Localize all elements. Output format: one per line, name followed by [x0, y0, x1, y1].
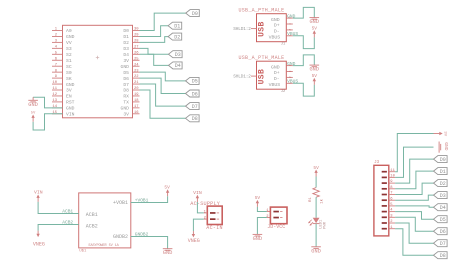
svg-text:A0: A0: [66, 28, 72, 34]
svg-text:VV: VV: [66, 40, 72, 46]
ground symbol (JD-VCC): [253, 234, 263, 242]
U1 right pin 18 (TX): [123, 99, 139, 106]
svg-text:USB: USB: [257, 21, 266, 37]
svg-text:USB: USB: [257, 69, 266, 85]
svg-text:6: 6: [55, 57, 58, 61]
svg-text:3V: 3V: [123, 112, 129, 118]
net flag D4 (left group): [169, 62, 183, 69]
svg-text:3: 3: [288, 23, 291, 25]
net flag D3 (right column): [434, 192, 448, 199]
svg-text:D-: D-: [274, 76, 280, 82]
U1 left pin 11 (3V): [52, 87, 72, 94]
svg-text:D6: D6: [123, 76, 129, 82]
J1 pin stub 1: [286, 17, 293, 19]
svg-text:ACB2: ACB2: [62, 219, 73, 225]
svg-text:ACB1: ACB1: [86, 212, 98, 218]
U1 left pin 2 (GND): [52, 34, 75, 41]
svg-text:SK: SK: [66, 76, 72, 82]
net flag D1 (right column): [434, 168, 448, 175]
svg-text:8: 8: [390, 186, 393, 190]
svg-text:3: 3: [55, 40, 58, 44]
svg-text:D2: D2: [440, 181, 446, 187]
svg-text:GND: GND: [271, 64, 280, 70]
svg-text:D7: D7: [192, 104, 198, 110]
U1 left pin 8 (S0): [52, 69, 72, 76]
JD-VCC pin2 wire: [257, 218, 270, 235]
wire U1 to flag D3: [140, 48, 169, 54]
svg-text:3V: 3V: [123, 58, 129, 64]
supply 5V (module output): [164, 185, 170, 197]
supply VNEG (AC input): [188, 231, 200, 244]
svg-text:+VOB1: +VOB1: [135, 197, 149, 203]
J2 pin stub 4: [286, 82, 293, 84]
U1 right pin 25 (3V): [123, 57, 139, 64]
J2 SHLD pin: [233, 75, 256, 80]
U1 left pin 4 (S3): [52, 45, 72, 52]
U1 left pin 12 (EN): [52, 93, 72, 100]
svg-text:5V: 5V: [312, 25, 318, 31]
J1 pin stub 2: [286, 23, 293, 25]
AC-SUPPLY connector body: [204, 206, 223, 231]
svg-text:GND: GND: [121, 106, 130, 112]
svg-text:D8: D8: [192, 116, 198, 122]
wire J3 pin 5 to flag D4: [395, 206, 433, 207]
wire GNDB2: [131, 237, 168, 249]
J1 GND wire: [293, 7, 315, 18]
svg-text:PWR: PWR: [324, 221, 328, 229]
svg-text:S2: S2: [66, 52, 72, 58]
svg-text:JD-VCC: JD-VCC: [267, 224, 285, 230]
svg-text:EASYPOWER 5V 1A: EASYPOWER 5V 1A: [89, 244, 120, 248]
net flag D7 (left group): [186, 103, 200, 110]
svg-text:D2: D2: [174, 34, 180, 40]
J3 pin 6 stub: [389, 197, 395, 201]
net flag D8 (right column): [434, 252, 448, 259]
svg-text:7: 7: [390, 192, 392, 196]
svg-text:21: 21: [134, 81, 139, 85]
AC-SUPPLY pin2 wire: [193, 219, 207, 231]
svg-text:VNEG: VNEG: [188, 238, 200, 244]
svg-text:11: 11: [52, 87, 57, 91]
wire U1 to flag D4: [140, 54, 169, 65]
wire J3 pin 7 to flag D2: [395, 183, 433, 194]
U1 left pin 7 (SC): [52, 63, 72, 70]
net flag D2 (right column): [434, 180, 448, 187]
J2 VBUS wire: [293, 83, 315, 96]
J3 pin 5 stub: [389, 203, 395, 207]
net flag D2 (left group): [168, 33, 182, 40]
supply 5V (JD-VCC): [255, 195, 261, 207]
net flag D6 (left group): [186, 90, 200, 97]
wire J3 pin 4 to flag D5: [395, 212, 433, 220]
wire U1 to flag D8: [140, 90, 186, 118]
svg-text:GNDB2: GNDB2: [135, 232, 149, 238]
svg-text:VIN: VIN: [34, 190, 43, 196]
net flag D3 (left group): [169, 51, 183, 58]
J3 pin 10 stub: [389, 175, 396, 179]
svg-text:12: 12: [52, 93, 57, 97]
U1 right pin 22 (D6): [123, 75, 139, 82]
svg-text:S1: S1: [66, 58, 72, 64]
svg-text:+VOB1: +VOB1: [113, 200, 128, 206]
svg-text:SHLD1:2: SHLD1:2: [233, 75, 251, 80]
svg-text:29: 29: [134, 34, 139, 38]
svg-text:D1: D1: [440, 169, 446, 175]
svg-text:GND: GND: [309, 67, 319, 73]
J2 pin stub 2: [286, 71, 293, 73]
svg-text:GND: GND: [66, 82, 75, 88]
svg-text:D4: D4: [175, 63, 181, 69]
svg-text:VIN: VIN: [193, 190, 202, 196]
svg-text:25: 25: [134, 57, 139, 61]
svg-text:D+: D+: [274, 70, 280, 76]
J2 ground symbol: [309, 65, 319, 73]
ground symbol near U1: [28, 97, 38, 108]
svg-text:8: 8: [55, 69, 58, 73]
J1 pin stub 3: [286, 29, 293, 31]
J2 5V supply: [312, 73, 318, 85]
svg-text:5V: 5V: [164, 185, 170, 191]
svg-text:GND: GND: [28, 102, 38, 108]
svg-text:D6: D6: [440, 229, 446, 235]
svg-text:10: 10: [52, 81, 57, 85]
wire J3 pin 6 to flag D3: [395, 195, 433, 200]
U1 right pin 23 (D5): [123, 69, 139, 76]
svg-text:J1: J1: [281, 43, 286, 47]
svg-text:RX: RX: [123, 94, 129, 100]
svg-text:3V: 3V: [66, 88, 72, 94]
svg-text:D5: D5: [440, 217, 446, 223]
svg-text:5: 5: [390, 203, 393, 207]
svg-text:13: 13: [52, 99, 57, 103]
svg-text:16: 16: [134, 111, 139, 115]
U1 right pin 21 (D7): [123, 81, 139, 88]
U1 right pin 16 (3V): [123, 111, 139, 118]
svg-text:SC: SC: [66, 64, 72, 70]
J1 pin stub 4: [286, 35, 293, 37]
svg-text:7: 7: [55, 63, 57, 67]
svg-text:6: 6: [390, 197, 393, 201]
svg-text:22: 22: [134, 75, 139, 79]
svg-text:D-: D-: [274, 29, 280, 35]
svg-text:D0: D0: [440, 157, 446, 163]
J1 VBUS wire: [293, 36, 315, 49]
wire J3 pin 11 to 3V supply: [395, 134, 433, 172]
svg-text:GND: GND: [287, 61, 296, 67]
U1 right pin 17 (GND): [121, 105, 140, 112]
IC U1 NodeMCU dev board: [63, 25, 133, 118]
svg-text:5V: 5V: [31, 111, 36, 115]
U1 right pin 27 (D3): [123, 45, 139, 52]
net flag D6 (right column): [434, 228, 448, 235]
U1 right pin 30 (D0): [123, 28, 139, 35]
U1 right pin 24 (GND): [121, 63, 140, 70]
wire J3 pin 2 to flag D7: [395, 223, 433, 243]
U1 right pin 26 (D4): [123, 51, 139, 58]
J1 5V supply: [312, 25, 318, 37]
svg-text:VBUS: VBUS: [269, 35, 281, 41]
svg-text:11: 11: [390, 169, 395, 173]
U1 left pin 15 (VIN): [52, 111, 75, 118]
svg-text:2: 2: [288, 76, 291, 78]
U1 right pin 20 (D8): [123, 87, 139, 94]
svg-text:S3: S3: [66, 46, 72, 52]
svg-text:VBUS: VBUS: [287, 31, 298, 37]
svg-text:USB_A_PTH_MALE: USB_A_PTH_MALE: [239, 7, 285, 13]
svg-text:D1: D1: [174, 24, 180, 30]
resistor R1: [309, 188, 325, 204]
wire U1 to flag D2: [140, 37, 169, 43]
wire U1 to flag D1: [140, 26, 169, 37]
supply 3V (right, rotated): [434, 131, 447, 136]
svg-text:GND: GND: [253, 236, 263, 242]
svg-text:J3: J3: [374, 161, 380, 165]
svg-text:D+: D+: [274, 23, 280, 29]
wire J3 pin 8 to flag D1: [395, 171, 433, 189]
net flag D8 (left group): [186, 115, 200, 122]
wire 5V to R1: [315, 177, 317, 188]
net flag D5 (left group): [186, 77, 200, 84]
svg-text:5V: 5V: [312, 73, 318, 79]
svg-text:D0: D0: [123, 28, 129, 34]
svg-text:D3: D3: [440, 193, 446, 199]
svg-text:D7: D7: [123, 82, 129, 88]
svg-text:26: 26: [134, 51, 139, 55]
svg-text:9: 9: [55, 75, 58, 79]
svg-text:SHLD1:2: SHLD1:2: [233, 27, 251, 32]
wire U1 to flag D6: [140, 78, 186, 93]
svg-text:27: 27: [134, 45, 139, 49]
J3 pin 3 stub: [389, 214, 395, 218]
J3 pin 11 stub: [389, 169, 396, 173]
svg-text:GND: GND: [271, 17, 280, 23]
svg-text:D4: D4: [440, 205, 446, 211]
U1 left pin 5 (S2): [52, 51, 72, 58]
J1 ground symbol: [309, 18, 319, 26]
ground symbol (module output): [163, 249, 173, 257]
svg-text:GND: GND: [287, 13, 296, 19]
svg-text:D7: D7: [440, 241, 446, 247]
wire J3 pin 10 to GND: [395, 147, 433, 177]
net flag D1 (left group): [168, 22, 182, 29]
U1 left pin 14 (GND): [52, 105, 75, 112]
LED LED1: [308, 218, 328, 229]
svg-text:R1: R1: [309, 197, 313, 202]
wire U1 pin15 VIN net: [33, 114, 62, 130]
svg-text:1: 1: [55, 28, 58, 32]
wire U1 to flag D7: [140, 84, 186, 106]
net flag D5 (right column): [434, 216, 448, 223]
svg-text:D2: D2: [123, 40, 129, 46]
svg-text:D0: D0: [192, 11, 198, 17]
net flag D0 (right column): [434, 156, 448, 163]
svg-text:AC-IN: AC-IN: [206, 225, 223, 231]
wire J3 pin 1 to flag D8: [395, 229, 433, 256]
svg-text:2: 2: [390, 220, 393, 224]
wire U1 to flag D5: [140, 72, 186, 81]
J3 pin 2 stub: [389, 220, 395, 224]
U1 left pin 9 (SK): [52, 75, 72, 82]
U1 right pin 29 (D1): [123, 34, 139, 41]
wire R1 to LED1: [315, 197, 317, 218]
svg-text:1: 1: [204, 210, 207, 214]
svg-text:3V: 3V: [443, 131, 447, 136]
U1 right pin 28 (D2): [123, 40, 139, 47]
svg-text:2: 2: [288, 29, 291, 31]
svg-text:1: 1: [390, 226, 393, 230]
svg-text:ACB2: ACB2: [86, 223, 98, 229]
svg-text:GNDB2: GNDB2: [113, 234, 128, 240]
svg-text:VIN: VIN: [66, 112, 75, 118]
svg-text:20: 20: [134, 87, 139, 91]
wire J3 pin 3 to flag D6: [395, 217, 433, 231]
svg-text:3: 3: [288, 71, 291, 73]
svg-text:30: 30: [134, 28, 139, 32]
svg-text:VNEG: VNEG: [33, 241, 45, 247]
svg-text:GND: GND: [66, 34, 75, 40]
svg-text:2: 2: [204, 217, 207, 221]
svg-text:ACB1: ACB1: [62, 208, 73, 214]
supply 5V (LED chain): [313, 165, 319, 177]
svg-text:S0: S0: [66, 70, 72, 76]
svg-text:GND: GND: [163, 250, 173, 256]
J3 pin 9 stub: [389, 180, 395, 184]
svg-text:D5: D5: [123, 70, 129, 76]
svg-text:28: 28: [134, 40, 139, 44]
svg-text:24: 24: [134, 63, 139, 67]
J2 pin stub 3: [286, 76, 293, 78]
svg-text:18: 18: [134, 99, 139, 103]
svg-text:D3: D3: [175, 52, 181, 58]
svg-text:D6: D6: [192, 91, 198, 97]
svg-text:9: 9: [390, 180, 393, 184]
svg-text:D8: D8: [440, 253, 446, 259]
svg-text:D8: D8: [123, 88, 129, 94]
svg-text:2: 2: [266, 215, 269, 219]
JD-VCC pin1 wire: [257, 207, 270, 212]
svg-text:D5: D5: [192, 79, 198, 85]
U1 left pin 3 (VV): [52, 40, 72, 47]
wire ACB2: [38, 225, 79, 231]
net flag D0 (left group): [186, 10, 200, 17]
J1 SHLD pin: [233, 27, 256, 32]
JD-VCC connector body: [266, 207, 287, 230]
J3 pin 7 stub: [389, 192, 395, 196]
U1 right pin 19 (RX): [123, 93, 139, 100]
svg-text:GND: GND: [66, 106, 75, 112]
J2 GND wire: [293, 55, 315, 66]
svg-text:17: 17: [134, 105, 139, 109]
svg-text:1: 1: [266, 209, 269, 213]
ground symbol (LED chain): [311, 247, 321, 255]
svg-text:EN: EN: [66, 94, 72, 100]
svg-text:4: 4: [390, 209, 393, 213]
wire ACB1: [38, 202, 79, 214]
U1 left pin 10 (GND): [52, 81, 75, 88]
svg-text:U$1: U$1: [79, 248, 87, 253]
svg-text:4: 4: [55, 45, 58, 49]
svg-text:VBUS: VBUS: [269, 82, 281, 88]
svg-text:23: 23: [134, 69, 139, 73]
U1 left pin 1 (A0): [52, 28, 72, 35]
svg-text:5: 5: [55, 51, 58, 55]
svg-text:10: 10: [390, 175, 395, 179]
USB connector J2 body: [257, 61, 287, 94]
wire U1 pin14 GND net: [33, 97, 62, 108]
svg-text:VBUS: VBUS: [287, 79, 298, 85]
svg-text:D1: D1: [123, 34, 129, 40]
U1 left pin 6 (S1): [52, 57, 72, 64]
svg-text:GND: GND: [311, 248, 321, 254]
U1 left pin 13 (RST): [52, 99, 75, 106]
svg-text:3: 3: [390, 214, 393, 218]
AC-SUPPLY pin1 wire: [197, 202, 207, 213]
svg-text:J2: J2: [281, 90, 286, 94]
svg-text:GND: GND: [443, 142, 449, 151]
supply VIN (left): [34, 190, 43, 202]
wire +VOB1: [131, 196, 168, 202]
svg-text:2: 2: [55, 34, 58, 38]
wire J3 pin 9 to flag D0: [395, 159, 433, 183]
supply 5V near U1: [31, 111, 36, 121]
net flag D7 (right column): [434, 240, 448, 247]
svg-text:D3: D3: [123, 46, 129, 52]
svg-text:19: 19: [134, 93, 139, 97]
svg-text:D4: D4: [123, 52, 129, 58]
svg-text:TX: TX: [123, 100, 129, 106]
J3 pin 4 stub: [389, 209, 395, 213]
supply VIN (AC input): [193, 190, 202, 202]
wire U1 to flag D0: [140, 13, 186, 30]
J2 pin stub 1: [286, 65, 293, 67]
pin header J3 body: [374, 165, 389, 236]
ground symbol (right, rotated): [439, 142, 449, 153]
wire LED1 to ground: [315, 224, 317, 247]
power module U$1 body: [79, 193, 131, 254]
svg-text:USB_A_PTH_MALE: USB_A_PTH_MALE: [239, 55, 285, 61]
svg-text:1k: 1k: [320, 198, 325, 203]
svg-text:GND: GND: [309, 19, 319, 25]
J3 pin 1 stub: [389, 226, 395, 230]
USB connector J1 body: [257, 14, 287, 47]
J3 pin 8 stub: [389, 186, 395, 190]
svg-text:RST: RST: [66, 100, 75, 106]
supply VNEG (left): [33, 231, 45, 248]
net flag D4 (right column): [434, 204, 448, 211]
svg-text:GND: GND: [121, 64, 130, 70]
